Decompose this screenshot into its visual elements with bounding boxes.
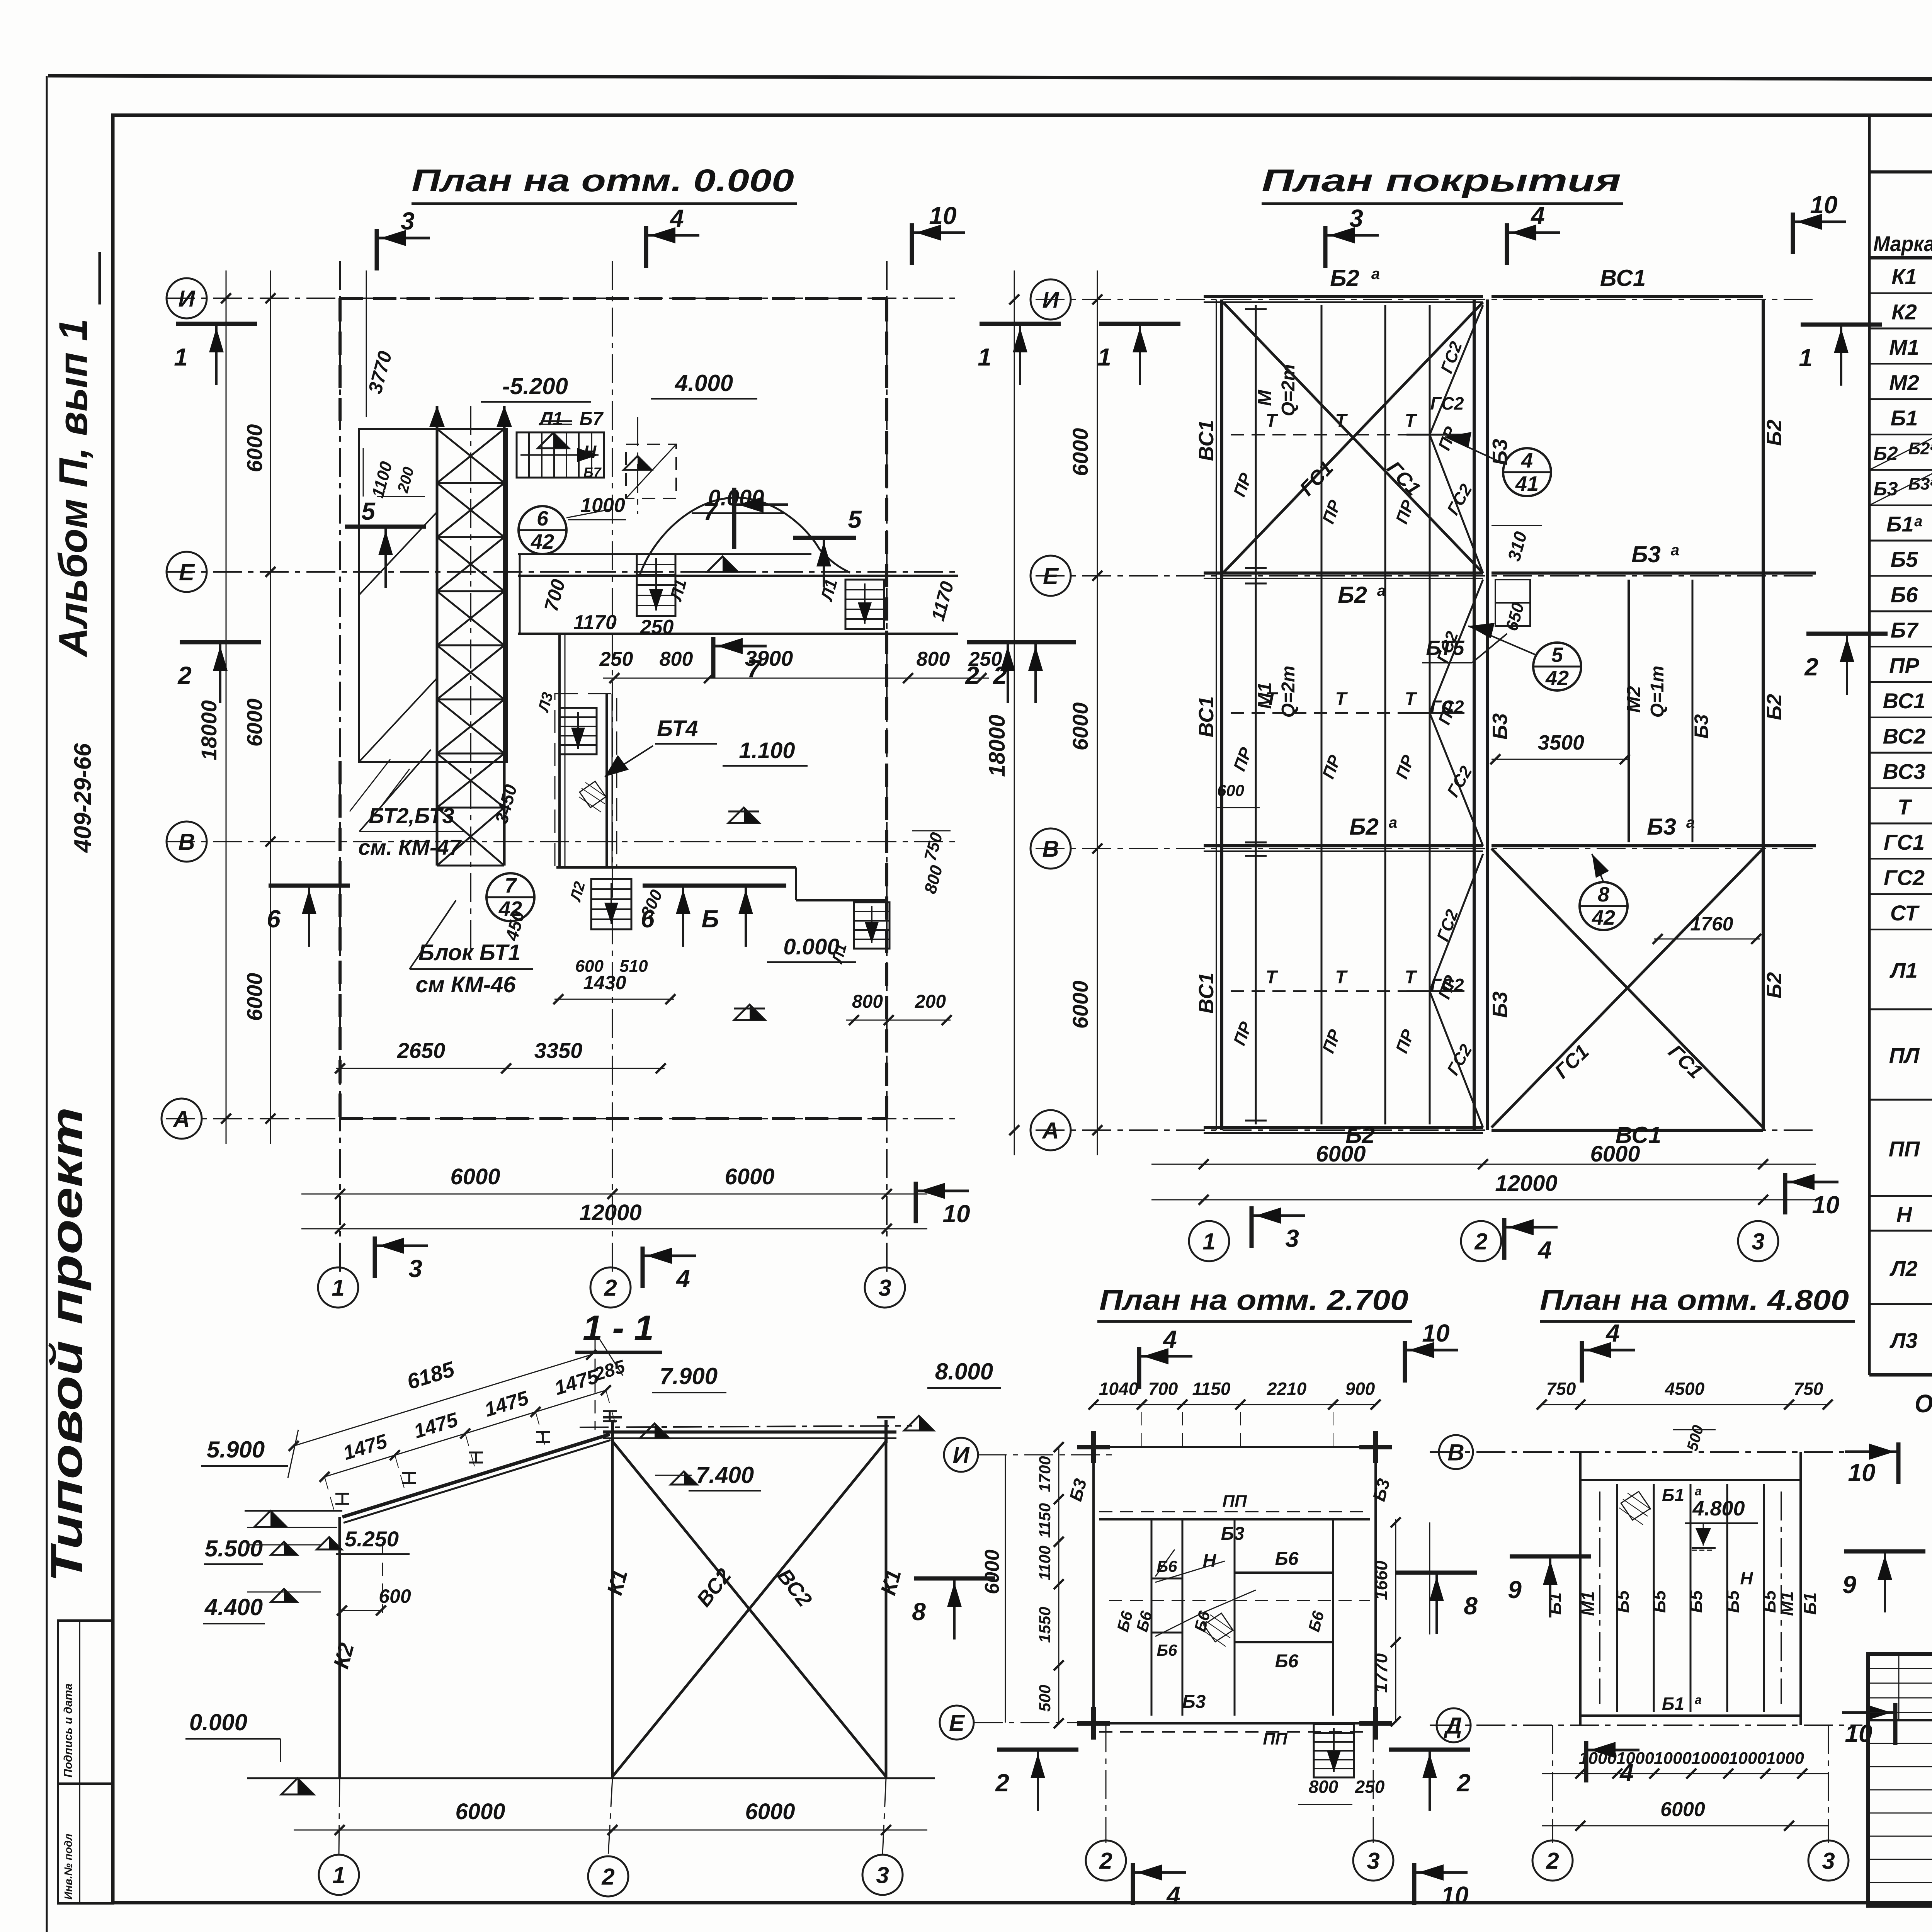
svg-text:Б3: Б3 — [1647, 814, 1676, 840]
svg-text:Л1: Л1 — [1889, 958, 1918, 983]
dim 3770 rotated — [366, 270, 367, 417]
circled 7/42 — [486, 873, 534, 921]
svg-text:10: 10 — [1810, 191, 1837, 219]
svg-text:План на отм. 0.000: План на отм. 0.000 — [412, 163, 794, 198]
svg-text:Б3: Б3 — [1221, 1524, 1245, 1544]
svg-text:Д: Д — [1443, 1713, 1462, 1739]
svg-text:2: 2 — [177, 662, 192, 689]
tower inner diagonals big — [359, 678, 437, 762]
svg-text:Б2: Б2 — [1873, 442, 1898, 464]
svg-text:Б5: Б5 — [1612, 1590, 1633, 1613]
svg-text:6000: 6000 — [1660, 1798, 1705, 1821]
svg-text:1430: 1430 — [583, 972, 626, 993]
БТ5 detail near grid2 mid — [1495, 580, 1530, 626]
row ВС3 — [1869, 787, 1932, 789]
svg-text:6000: 6000 — [745, 1799, 795, 1824]
gallery dimension chain inclined — [325, 1390, 606, 1477]
flag 4 bottom 4.800 — [1584, 1741, 1588, 1782]
svg-text:1760: 1760 — [1690, 913, 1733, 935]
svg-text:1170: 1170 — [573, 611, 617, 634]
row ПП — [1869, 1195, 1932, 1197]
row М2 — [1869, 398, 1932, 400]
svg-text:6000: 6000 — [242, 973, 267, 1021]
svg-text:а: а — [1695, 1693, 1702, 1707]
row ПЛ — [1869, 1099, 1932, 1101]
circled 5/42 — [1533, 643, 1581, 690]
bottom wall row B segment — [556, 866, 796, 869]
svg-text:см КМ-46: см КМ-46 — [415, 972, 516, 997]
svg-text:а: а — [1671, 542, 1679, 559]
svg-text:Q=1т: Q=1т — [1647, 666, 1668, 718]
svg-text:800: 800 — [660, 648, 693, 670]
svg-text:1550: 1550 — [1036, 1607, 1054, 1643]
axis circles roof plan left — [1031, 279, 1071, 320]
svg-text:9: 9 — [1508, 1576, 1522, 1604]
svg-text:3350: 3350 — [534, 1038, 583, 1063]
svg-text:9: 9 — [1842, 1571, 1856, 1599]
svg-text:ГС1: ГС1 — [1884, 830, 1925, 854]
svg-text:ВС2: ВС2 — [1883, 724, 1926, 748]
roof section flags — [1323, 226, 1328, 268]
svg-text:4: 4 — [1166, 1881, 1180, 1909]
svg-text:А: А — [172, 1106, 190, 1132]
svg-text:7.900: 7.900 — [660, 1363, 718, 1389]
svg-text:12000: 12000 — [579, 1200, 641, 1225]
axis circles left plan — [167, 278, 207, 318]
svg-text:Б7: Б7 — [1891, 618, 1919, 642]
svg-text:4: 4 — [1537, 1236, 1552, 1264]
svg-text:Б3: Б3 — [1182, 1692, 1206, 1712]
svg-text:250: 250 — [599, 648, 633, 670]
bottom dimension chain 6000 6000 12000 — [301, 1194, 927, 1195]
svg-text:Е: Е — [949, 1710, 965, 1736]
svg-text:ВС1: ВС1 — [1195, 696, 1218, 738]
svg-text:Б2: Б2 — [1330, 265, 1359, 291]
6185 dim line — [294, 1355, 591, 1446]
svg-text:5.250: 5.250 — [345, 1527, 399, 1551]
svg-text:План на отм. 2.700: План на отм. 2.700 — [1099, 1284, 1408, 1316]
svg-text:7: 7 — [703, 498, 718, 526]
svg-text:250: 250 — [1355, 1777, 1385, 1797]
svg-text:10: 10 — [1812, 1191, 1839, 1219]
bottom dims 4.800 — [1542, 1773, 1828, 1774]
sheet outer left trim line — [46, 76, 48, 1932]
row Б1ᵃ — [1869, 540, 1932, 542]
column K1 left — [611, 1439, 614, 1778]
axis rows 4.800 — [1430, 1451, 1862, 1453]
tower X bracing panels — [437, 429, 504, 483]
row Л3 — [1869, 1374, 1932, 1376]
ГС2 diagonals mid cell — [1430, 580, 1483, 713]
svg-text:Б7: Б7 — [583, 464, 602, 480]
diag leaders 2.700 — [1155, 1549, 1175, 1577]
svg-text:2210: 2210 — [1267, 1379, 1307, 1399]
svg-text:7: 7 — [505, 874, 517, 897]
svg-text:18000: 18000 — [197, 700, 221, 760]
svg-text:5: 5 — [848, 505, 862, 533]
svg-text:а: а — [1686, 814, 1695, 831]
upper stairs Л1 — [517, 432, 604, 478]
svg-text:1: 1 — [1097, 343, 1111, 371]
sidebar stamp box — [58, 1621, 113, 1903]
svg-text:Общие примечания смотреть н: Общие примечания смотреть на листе КМ-40… — [1915, 1389, 1932, 1418]
svg-text:Б2: Б2 — [1338, 582, 1367, 608]
svg-text:Б3: Б3 — [1873, 478, 1898, 500]
svg-text:В: В — [178, 829, 195, 855]
circled 6/42 — [519, 506, 566, 554]
svg-text:М2: М2 — [1889, 370, 1919, 395]
svg-text:Марка: Марка — [1873, 231, 1932, 256]
svg-text:1: 1 — [332, 1275, 344, 1301]
svg-text:ГС2: ГС2 — [1430, 697, 1464, 717]
circled 8/42 — [1580, 882, 1628, 930]
section axis circles — [319, 1855, 359, 1895]
svg-text:3: 3 — [876, 1862, 889, 1888]
svg-text:Б2: Б2 — [1763, 972, 1786, 998]
grid axis row И — [166, 298, 958, 299]
bottom right stairs — [854, 902, 889, 949]
svg-text:В: В — [1447, 1440, 1464, 1466]
svg-text:БТ5: БТ5 — [1426, 636, 1464, 660]
svg-text:2: 2 — [1546, 1848, 1559, 1874]
svg-text:ВС3: ВС3 — [1883, 759, 1926, 784]
svg-text:Т: Т — [1405, 411, 1417, 431]
svg-text:Б6: Б6 — [1275, 1651, 1299, 1672]
svg-text:ПП: ПП — [1263, 1730, 1288, 1748]
section 5 flag right — [793, 536, 856, 540]
svg-text:а: а — [1695, 1484, 1702, 1498]
svg-text:1 - 1: 1 - 1 — [583, 1308, 654, 1348]
svg-text:К1: К1 — [1891, 264, 1917, 289]
svg-text:700: 700 — [1148, 1379, 1178, 1399]
svg-text:6: 6 — [267, 905, 281, 933]
svg-text:7: 7 — [747, 655, 762, 683]
svg-text:0.000: 0.000 — [783, 934, 839, 959]
top dims 2.700 — [1094, 1404, 1376, 1405]
axis circles 2.700 — [944, 1438, 978, 1472]
svg-text:10: 10 — [929, 202, 956, 230]
svg-text:Т: Т — [1265, 967, 1278, 988]
grid axis col 2 — [612, 261, 613, 1275]
svg-text:5.900: 5.900 — [207, 1437, 265, 1463]
svg-text:2: 2 — [1474, 1229, 1487, 1255]
svg-text:Т: Т — [1265, 411, 1278, 431]
row Б3/Б3ᵃ — [1869, 505, 1932, 506]
3500 dim — [1492, 759, 1629, 760]
svg-text:1040: 1040 — [1099, 1379, 1139, 1399]
row Л2 — [1869, 1303, 1932, 1305]
top dims 4.800 — [1542, 1404, 1828, 1405]
svg-text:42: 42 — [1592, 906, 1615, 929]
big X brace bottom-right cell ГС1 — [1492, 849, 1763, 1128]
svg-text:4.400: 4.400 — [204, 1594, 263, 1620]
cloud curve around 0.000 area — [639, 498, 850, 576]
svg-text:Б7: Б7 — [580, 409, 604, 429]
inclined gallery — [342, 1434, 610, 1517]
svg-text:Б1: Б1 — [1891, 406, 1918, 430]
svg-text:250: 250 — [640, 616, 674, 638]
svg-text:800: 800 — [852, 992, 883, 1012]
svg-text:ВС1: ВС1 — [1883, 689, 1926, 713]
svg-text:3: 3 — [1349, 204, 1363, 232]
elev arrow near 4.000 — [624, 456, 651, 470]
row Б5 — [1869, 575, 1932, 577]
svg-text:4: 4 — [1521, 449, 1533, 472]
shaft opening dashed — [626, 444, 676, 498]
svg-text:ПЛ: ПЛ — [1889, 1043, 1920, 1068]
svg-text:М1: М1 — [1777, 1591, 1797, 1616]
svg-text:500: 500 — [1036, 1685, 1054, 1712]
svg-text:М1: М1 — [1889, 335, 1919, 359]
svg-text:800: 800 — [917, 648, 950, 670]
M line end caps — [1245, 308, 1267, 310]
svg-text:1000: 1000 — [1766, 1749, 1804, 1768]
svg-text:6000: 6000 — [981, 1549, 1003, 1594]
overall 18000 chain — [226, 270, 227, 1144]
svg-text:БТ4: БТ4 — [657, 716, 698, 741]
svg-text:Т: Т — [1335, 689, 1348, 709]
svg-text:1150: 1150 — [1192, 1379, 1231, 1399]
svg-text:ГС2: ГС2 — [1430, 393, 1464, 413]
svg-text:1.100: 1.100 — [739, 738, 795, 763]
section 7 flag upper — [732, 488, 736, 549]
svg-text:Н: Н — [1203, 1551, 1217, 1571]
svg-text:Типовой проект: Типовой проект — [41, 1107, 92, 1582]
svg-text:Б5: Б5 — [1723, 1590, 1743, 1613]
svg-text:Т: Т — [1265, 689, 1278, 709]
svg-text:1: 1 — [1202, 1229, 1215, 1255]
vertical dimension chain 6000x3 left — [270, 270, 271, 1144]
mid-right cell M2 verticals — [1628, 580, 1630, 842]
svg-text:3: 3 — [1367, 1848, 1379, 1874]
table outer & header lines — [1868, 117, 1871, 1375]
svg-text:1: 1 — [174, 343, 188, 371]
svg-text:5: 5 — [361, 497, 376, 525]
1760 dim — [1654, 939, 1760, 940]
svg-text:3: 3 — [1285, 1225, 1299, 1252]
svg-text:Б5: Б5 — [1649, 1590, 1669, 1613]
svg-text:10: 10 — [1441, 1881, 1468, 1909]
bottom stairs — [591, 879, 631, 929]
svg-text:И: И — [178, 286, 196, 312]
svg-text:Б1: Б1 — [1800, 1592, 1820, 1615]
ГС2 diagonals bottom cell — [1430, 854, 1483, 991]
svg-text:1: 1 — [332, 1862, 345, 1888]
tower chords — [436, 406, 439, 866]
svg-text:409-29-66: 409-29-66 — [70, 743, 96, 853]
svg-text:8: 8 — [1598, 883, 1609, 906]
svg-text:6000: 6000 — [724, 1164, 774, 1189]
svg-text:1660: 1660 — [1371, 1560, 1391, 1600]
svg-text:И: И — [952, 1442, 970, 1468]
svg-text:а: а — [1389, 814, 1397, 831]
svg-text:1000: 1000 — [1654, 1749, 1692, 1768]
row Л1 — [1869, 1009, 1932, 1010]
svg-text:см. КМ-47: см. КМ-47 — [358, 835, 462, 859]
grid axis row А — [166, 1118, 958, 1119]
svg-text:Подпись и дата: Подпись и дата — [62, 1684, 75, 1777]
svg-text:ГС2: ГС2 — [1884, 865, 1925, 889]
svg-text:3: 3 — [1752, 1229, 1764, 1255]
svg-text:М1: М1 — [1578, 1591, 1598, 1616]
svg-text:Н: Н — [583, 442, 597, 462]
svg-text:Н: Н — [1896, 1202, 1913, 1226]
svg-text:Т: Т — [1405, 689, 1417, 709]
section bottom dims — [294, 1830, 927, 1831]
svg-text:42: 42 — [531, 530, 554, 553]
svg-text:-5.200: -5.200 — [502, 373, 568, 399]
5.900 level lines — [254, 1511, 287, 1527]
svg-text:10: 10 — [1848, 1459, 1875, 1486]
svg-text:Е: Е — [179, 560, 195, 585]
svg-text:Б5: Б5 — [1891, 547, 1918, 571]
row К1 — [1869, 293, 1932, 294]
row Б7 — [1869, 646, 1932, 648]
row ВС1 — [1869, 717, 1932, 718]
svg-text:Альбом П, вып 1: Альбом П, вып 1 — [51, 319, 96, 658]
svg-text:План на отм. 4.800: План на отм. 4.800 — [1540, 1284, 1849, 1316]
svg-text:4.800: 4.800 — [1692, 1497, 1745, 1520]
lintel БТ4 column — [558, 634, 561, 867]
svg-text:4500: 4500 — [1665, 1379, 1705, 1399]
beam end plates — [611, 1420, 614, 1443]
row СТ — [1869, 929, 1932, 930]
right rotated dims 2.700 — [1395, 1519, 1396, 1723]
row Т — [1869, 823, 1932, 825]
svg-text:1000: 1000 — [1729, 1749, 1767, 1768]
svg-text:6000: 6000 — [1068, 702, 1092, 751]
svg-text:5: 5 — [1551, 643, 1563, 667]
svg-text:5.500: 5.500 — [205, 1536, 263, 1561]
svg-text:41: 41 — [1515, 472, 1539, 495]
svg-text:а: а — [1371, 265, 1380, 282]
X bracing ВС2 — [612, 1441, 886, 1777]
Т tie rows dashed — [1231, 434, 1461, 435]
svg-text:Б5: Б5 — [1686, 1590, 1706, 1613]
roof grid rows dashdot — [1036, 299, 1816, 300]
hatch spot 2.700 — [1204, 1613, 1233, 1642]
svg-text:Т: Т — [1898, 794, 1913, 819]
svg-text:4: 4 — [1619, 1759, 1634, 1787]
svg-text:План покрытия: План покрытия — [1262, 163, 1621, 198]
svg-text:СТ: СТ — [1890, 901, 1920, 925]
svg-text:Б6: Б6 — [1891, 582, 1918, 607]
hatch spot 4.800 — [1621, 1492, 1650, 1520]
svg-text:4: 4 — [1162, 1325, 1177, 1353]
row Б2/Б2ᵃ — [1869, 469, 1932, 471]
svg-text:ВС1: ВС1 — [1600, 265, 1646, 291]
svg-text:Б: Б — [701, 905, 719, 933]
svg-text:2: 2 — [1099, 1848, 1112, 1874]
svg-text:1: 1 — [1799, 344, 1813, 372]
svg-text:Б1: Б1 — [1545, 1592, 1565, 1615]
svg-text:8: 8 — [912, 1598, 926, 1626]
outline 4.800 — [1580, 1479, 1801, 1481]
svg-text:Б1ᵃ: Б1ᵃ — [1886, 512, 1922, 536]
row ПР — [1869, 681, 1932, 683]
svg-text:ПП: ПП — [1889, 1137, 1920, 1161]
row ВС2 — [1869, 752, 1932, 754]
svg-text:М2: М2 — [1623, 686, 1645, 713]
svg-text:4: 4 — [669, 204, 684, 232]
svg-text:600: 600 — [1217, 781, 1244, 799]
svg-text:8.000: 8.000 — [935, 1359, 993, 1384]
svg-text:2650: 2650 — [397, 1038, 446, 1063]
big X brace top-left cell ГС1 — [1223, 302, 1483, 573]
svg-text:750: 750 — [1546, 1379, 1576, 1399]
svg-text:1: 1 — [978, 343, 992, 371]
svg-text:6000: 6000 — [455, 1799, 505, 1824]
svg-text:4: 4 — [1605, 1319, 1620, 1347]
corridor row E — [518, 575, 958, 577]
tower block БТ2 БТ3 outline — [359, 429, 507, 762]
svg-text:2: 2 — [1804, 653, 1818, 681]
svg-text:2: 2 — [601, 1864, 614, 1890]
svg-text:М: М — [1254, 389, 1276, 406]
mid stairs Л3 — [560, 708, 597, 754]
roof bottom dims — [1151, 1164, 1816, 1165]
svg-text:К2: К2 — [1891, 299, 1917, 324]
svg-text:600: 600 — [379, 1585, 411, 1607]
top beam between K1 — [603, 1430, 896, 1434]
svg-text:3: 3 — [878, 1275, 891, 1301]
svg-text:Т: Т — [1335, 967, 1348, 988]
left rotated dims 2.700 — [1058, 1447, 1060, 1723]
svg-text:Инв.№ подл: Инв.№ подл — [62, 1833, 74, 1900]
svg-text:1150: 1150 — [1036, 1503, 1054, 1538]
interior beams 4.800 — [1616, 1484, 1618, 1712]
svg-text:6: 6 — [537, 507, 549, 530]
svg-text:ВС1: ВС1 — [1195, 973, 1218, 1014]
svg-text:Б3: Б3 — [1488, 713, 1512, 740]
svg-text:3: 3 — [1822, 1848, 1835, 1874]
svg-text:800: 800 — [1309, 1777, 1338, 1797]
svg-text:6000: 6000 — [450, 1164, 500, 1189]
svg-text:ВС1: ВС1 — [1195, 420, 1218, 461]
svg-text:42: 42 — [1545, 667, 1569, 690]
corridor stairs left — [637, 554, 675, 616]
svg-text:750: 750 — [1794, 1379, 1823, 1399]
svg-text:2: 2 — [1456, 1769, 1471, 1797]
svg-text:Б3: Б3 — [1488, 992, 1512, 1018]
svg-text:4.000: 4.000 — [675, 370, 733, 396]
column K2 — [338, 1517, 341, 1778]
gallery I-beam ticks — [335, 1494, 349, 1504]
plan 2.700 outline — [1094, 1447, 1376, 1723]
grid axis row В — [166, 841, 958, 842]
hatch spot in БТ4 — [580, 781, 606, 808]
svg-text:Б3: Б3 — [1690, 714, 1712, 738]
roof inner purlins left bay — [1255, 305, 1257, 1124]
section base line — [247, 1777, 935, 1779]
roof chords vertical — [1216, 299, 1217, 1130]
corridor stairs right — [845, 580, 884, 629]
svg-text:1100: 1100 — [1036, 1546, 1054, 1580]
svg-text:900: 900 — [1345, 1379, 1375, 1399]
row Б6 — [1869, 611, 1932, 612]
svg-text:ПП: ПП — [1222, 1492, 1247, 1511]
svg-text:4: 4 — [1530, 202, 1545, 230]
ГС2 diagonals top cell — [1430, 305, 1483, 435]
svg-text:Н: Н — [1740, 1568, 1753, 1588]
svg-text:Б1: Б1 — [1662, 1694, 1684, 1714]
tower axis dashdot — [470, 406, 471, 951]
svg-text:Б2: Б2 — [1763, 420, 1786, 446]
svg-text:Л2: Л2 — [1889, 1256, 1918, 1281]
svg-text:200: 200 — [915, 992, 946, 1012]
svg-text:ВС1: ВС1 — [1616, 1122, 1662, 1148]
svg-text:Т: Т — [1405, 967, 1417, 988]
